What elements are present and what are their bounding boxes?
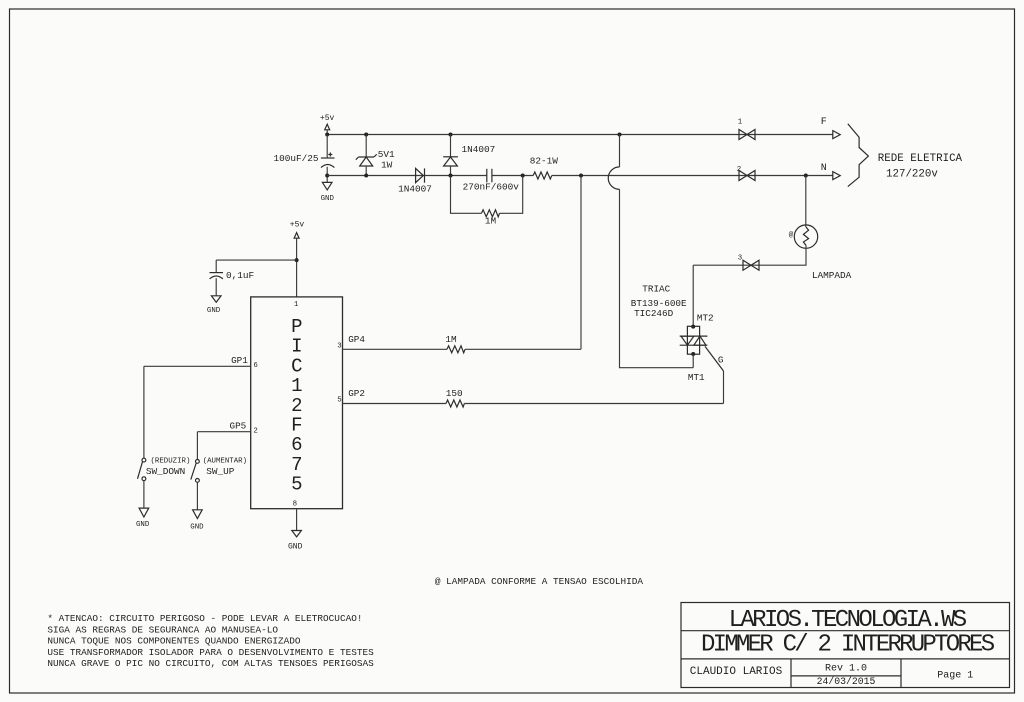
junction top rail at MT1 branch <box>618 133 622 137</box>
svg-text:SW_DOWN: SW_DOWN <box>146 466 185 477</box>
svg-text:N: N <box>821 163 827 174</box>
wire lamp to bowtie 3 to MT2 <box>693 245 806 326</box>
ground GND below 0,1uF <box>207 296 221 315</box>
wire SW_UP to ground <box>196 482 198 510</box>
svg-text:82-1W: 82-1W <box>530 156 559 167</box>
capacitor 100uF/25 <box>321 135 335 183</box>
svg-text:5: 5 <box>337 397 341 405</box>
terminal N <box>821 163 840 179</box>
svg-text:1: 1 <box>291 375 302 397</box>
svg-text:I: I <box>291 336 302 358</box>
svg-text:0,1uF: 0,1uF <box>226 270 254 281</box>
brace REDE ELETRICA <box>848 124 869 187</box>
svg-text:GND: GND <box>321 195 335 203</box>
wire N line to lamp <box>805 176 807 228</box>
svg-text:TIC246D: TIC246D <box>634 308 673 319</box>
resistor 1M (GP4 gate) <box>447 346 465 353</box>
svg-text:LARIOS.TECNOLOGIA.WS: LARIOS.TECNOLOGIA.WS <box>729 607 967 634</box>
svg-text:@ LAMPADA CONFORME A TENSAO ES: @ LAMPADA CONFORME A TENSAO ESCOLHIDA <box>435 576 644 587</box>
svg-text:C: C <box>291 355 302 377</box>
svg-text:G: G <box>718 354 724 365</box>
svg-text:SW_UP: SW_UP <box>206 466 235 477</box>
svg-text:MT1: MT1 <box>688 372 705 383</box>
diode 1N4007 shunt (vertical) <box>443 135 458 176</box>
svg-text:* ATENCAO: CIRCUITO PERIGOSO -: * ATENCAO: CIRCUITO PERIGOSO - PODE LEVA… <box>47 613 362 624</box>
capacitor 270nF/600v plates <box>487 169 492 183</box>
junction N line at lamp branch <box>804 174 808 178</box>
diode 1N4007 series (horizontal) <box>416 168 425 182</box>
junction lower rail at 100uF <box>325 174 329 178</box>
svg-text:NUNCA TOQUE NOS COMPONENTES QU: NUNCA TOQUE NOS COMPONENTES QUANDO ENERG… <box>47 636 301 647</box>
ground GND below PIC <box>288 531 303 552</box>
svg-text:3: 3 <box>337 343 341 351</box>
svg-text:1N4007: 1N4007 <box>462 144 496 155</box>
svg-text:GP1: GP1 <box>231 355 248 366</box>
resistor 1M snubber <box>482 210 500 217</box>
svg-text:CLAUDIO LARIOS: CLAUDIO LARIOS <box>690 666 783 678</box>
wire SW_DOWN to ground <box>143 481 145 509</box>
svg-text:@: @ <box>789 232 794 240</box>
svg-text:+5v: +5v <box>290 220 305 229</box>
svg-text:6: 6 <box>291 434 302 456</box>
svg-text:GP5: GP5 <box>230 421 247 432</box>
wire GP2 net <box>343 371 724 404</box>
triac BT139-600E <box>680 325 724 371</box>
wire F branch down to MT1 with hop <box>620 135 694 368</box>
ground GND below SW_UP <box>190 510 204 532</box>
title block <box>681 603 1010 688</box>
svg-text:MT2: MT2 <box>697 313 714 324</box>
junction lower rail at GP4 branch <box>579 174 583 178</box>
svg-text:24/03/2015: 24/03/2015 <box>817 676 876 687</box>
resistor 82-1W <box>533 172 552 179</box>
svg-text:2: 2 <box>291 395 302 417</box>
svg-text:SIGA AS REGRAS DE SEGURANCA AO: SIGA AS REGRAS DE SEGURANCA AO MANUSEA-L… <box>47 624 278 635</box>
svg-text:GP2: GP2 <box>348 388 365 399</box>
svg-text:2: 2 <box>737 166 741 174</box>
svg-text:REDE ELETRICA: REDE ELETRICA <box>878 153 963 165</box>
svg-text:+5v: +5v <box>320 114 335 123</box>
svg-text:127/220v: 127/220v <box>886 169 938 181</box>
svg-text:1: 1 <box>294 301 299 309</box>
svg-text:8: 8 <box>293 500 297 508</box>
switch SW_UP <box>191 460 200 483</box>
junction lower rail at 270nF right <box>521 174 525 178</box>
wire PIC pin 8 to ground <box>296 509 298 531</box>
svg-text:Rev 1.0: Rev 1.0 <box>825 664 867 675</box>
zener diode 5V1 1W <box>356 135 377 176</box>
switch SW_DOWN <box>138 458 146 480</box>
svg-text:NUNCA GRAVE O PIC NO CIRCUITO,: NUNCA GRAVE O PIC NO CIRCUITO, COM ALTAS… <box>47 658 374 669</box>
junction lower rail at shunt diode <box>449 174 453 178</box>
wire GP4 net <box>343 176 582 350</box>
junction lower rail at zener <box>364 174 368 178</box>
capacitor 0,1uF <box>210 273 224 296</box>
value label 5V1 1W <box>378 149 395 170</box>
ground GND below 100uF <box>321 182 335 203</box>
ground GND below SW_DOWN <box>136 508 150 529</box>
net +5v supply symbol (top rail) <box>320 114 335 135</box>
lamp LAMPADA <box>789 225 818 248</box>
svg-text:1: 1 <box>738 118 743 126</box>
svg-text:150: 150 <box>446 388 463 399</box>
wire lower rail cap to 82 resistor <box>492 175 533 177</box>
junction top rail at zener <box>364 133 368 137</box>
wire lower rail 82 resistor to N terminal <box>552 175 833 177</box>
svg-text:6: 6 <box>253 362 257 370</box>
svg-text:LAMPADA: LAMPADA <box>812 270 852 281</box>
svg-text:GND: GND <box>190 523 204 531</box>
IC U1 PIC12F675 <box>251 297 343 509</box>
resistor 150 <box>446 400 464 407</box>
junction at 0,1uF branch <box>295 258 299 262</box>
wire top rail +5v to F <box>327 134 833 136</box>
wire branch to 0,1uF <box>216 260 296 273</box>
svg-text:P: P <box>291 316 302 338</box>
net +5v supply symbol (PIC) <box>290 220 305 238</box>
terminal F <box>821 117 840 139</box>
svg-text:GP4: GP4 <box>348 334 365 345</box>
connector bowtie 2 <box>737 166 755 181</box>
svg-text:USE TRANSFORMADOR ISOLADOR PAR: USE TRANSFORMADOR ISOLADOR PARA O DESENV… <box>47 647 374 658</box>
svg-text:(AUMENTAR): (AUMENTAR) <box>203 458 247 466</box>
svg-text:TRIAC: TRIAC <box>642 283 670 294</box>
wire GP5 net to SW_UP <box>197 432 250 460</box>
svg-text:(REDUZIR): (REDUZIR) <box>151 458 191 466</box>
wire lower rail left segment <box>327 175 487 177</box>
svg-text:5: 5 <box>291 474 302 496</box>
wire GP1 net to SW_DOWN <box>144 366 251 458</box>
svg-text:1M: 1M <box>445 334 457 345</box>
svg-text:GND: GND <box>207 307 221 315</box>
junction top rail at 100uF <box>325 133 329 137</box>
svg-text:F: F <box>821 117 827 128</box>
svg-text:1M: 1M <box>485 216 497 227</box>
svg-text:270nF/600v: 270nF/600v <box>463 182 520 193</box>
wire snubber loop <box>451 176 523 214</box>
connector bowtie 3 <box>738 255 759 271</box>
junction top rail at shunt diode <box>449 133 453 137</box>
connector bowtie 1 <box>738 118 755 139</box>
svg-text:100uF/25: 100uF/25 <box>274 153 319 164</box>
svg-text:Page 1: Page 1 <box>937 671 973 682</box>
svg-text:DIMMER C/ 2 INTERRUPTORES: DIMMER C/ 2 INTERRUPTORES <box>701 632 995 659</box>
wire +5v to PIC pin 1 <box>296 238 298 297</box>
svg-text:F: F <box>291 415 302 437</box>
svg-text:1W: 1W <box>381 159 393 170</box>
svg-text:3: 3 <box>738 255 742 263</box>
svg-text:2: 2 <box>253 427 257 435</box>
svg-text:GND: GND <box>136 521 150 529</box>
svg-text:GND: GND <box>288 542 303 551</box>
svg-text:1N4007: 1N4007 <box>398 184 432 195</box>
svg-text:7: 7 <box>291 454 302 476</box>
wire hop (no connection) over N line <box>608 167 619 190</box>
